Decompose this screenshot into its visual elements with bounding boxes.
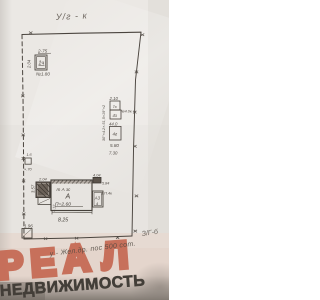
svg-text:5.84: 5.84 [102, 182, 109, 186]
svg-text:4з: 4з [113, 113, 117, 118]
svg-text:1.96: 1.96 [24, 224, 33, 229]
svg-text:№1.80: №1.80 [36, 72, 50, 77]
svg-text:7.30: 7.30 [109, 150, 118, 155]
svg-text:№4.0к: №4.0к [121, 109, 132, 113]
svg-text:44.0: 44.0 [109, 122, 118, 127]
svg-text:×.70: ×.70 [24, 167, 33, 172]
svg-text:4: 4 [96, 202, 98, 206]
svg-text:2-75: 2-75 [37, 49, 48, 54]
svg-text:7з: 7з [113, 104, 117, 109]
svg-text:2.04: 2.04 [27, 59, 32, 69]
svg-text:2.10: 2.10 [109, 96, 119, 101]
svg-text:5.80: 5.80 [110, 143, 119, 148]
svg-text:У/г - к: У/г - к [55, 10, 88, 22]
svg-text:А: А [65, 194, 71, 201]
svg-text:т А зс: т А зс [57, 187, 71, 192]
svg-text:30°×4.2×.51,5×19°×2: 30°×4.2×.51,5×19°×2 [102, 104, 106, 141]
svg-text:1.П.4к: 1.П.4к [101, 192, 112, 196]
svg-text:2.04: 2.04 [38, 177, 48, 182]
svg-text:8.25: 8.25 [58, 218, 68, 224]
svg-text:А3: А3 [94, 196, 101, 201]
svg-text:3.57: 3.57 [31, 184, 36, 193]
svg-text:4.04: 4.04 [93, 173, 101, 178]
